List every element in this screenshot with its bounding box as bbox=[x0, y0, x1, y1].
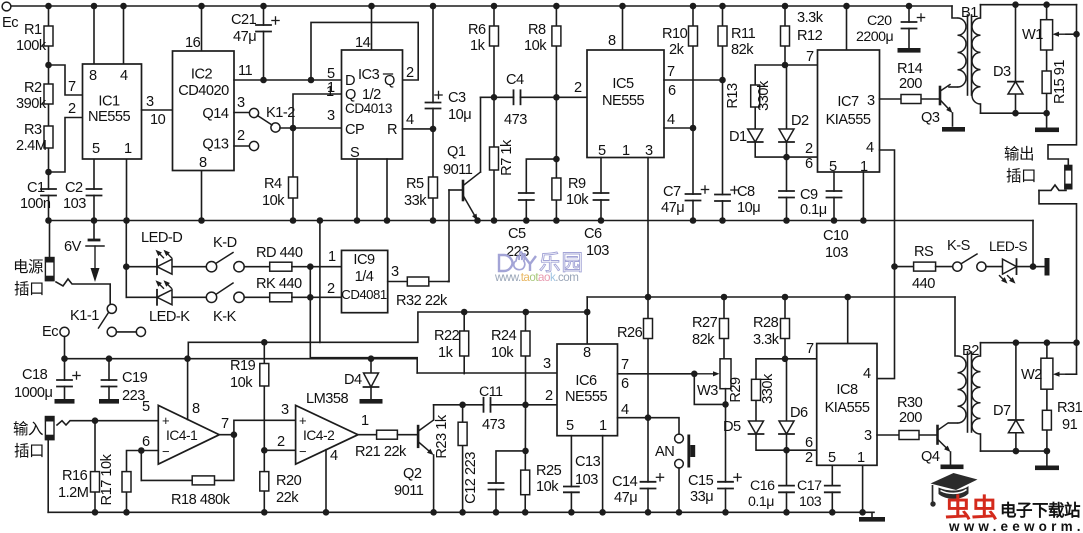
svg-text:R15 91: R15 91 bbox=[1052, 60, 1068, 104]
wire IC8 pin8 from supply bbox=[847, 297, 849, 344]
wire IC7 pin1 to mid rail bbox=[862, 172, 864, 221]
svg-text:91: 91 bbox=[1062, 417, 1078, 433]
svg-text:D2: D2 bbox=[791, 113, 809, 129]
svg-text:3: 3 bbox=[543, 356, 551, 372]
capacitor C20 from top rail to ground bbox=[908, 6, 910, 48]
svg-text:C14: C14 bbox=[612, 474, 638, 490]
svg-text:C12 223: C12 223 bbox=[463, 452, 479, 504]
svg-text:2: 2 bbox=[237, 128, 245, 144]
svg-text:C8: C8 bbox=[737, 184, 755, 200]
capacitor C21 bbox=[263, 6, 265, 80]
svg-text:C6: C6 bbox=[584, 226, 602, 242]
svg-text:K-S: K-S bbox=[947, 238, 971, 254]
svg-text:KIA555: KIA555 bbox=[825, 400, 870, 416]
LED LED-S bbox=[1002, 266, 1033, 268]
wire IC1 pin8 to top rail bbox=[93, 6, 95, 64]
output socket sleeve contact bbox=[1039, 185, 1066, 190]
svg-text:14: 14 bbox=[355, 35, 371, 51]
svg-text:R: R bbox=[387, 122, 397, 138]
svg-text:Q4: Q4 bbox=[921, 449, 940, 465]
wire lower supply line to B2 bbox=[586, 297, 588, 312]
capacitor C19 223 bbox=[108, 359, 110, 399]
svg-text:16: 16 bbox=[185, 35, 201, 51]
svg-text:K-K: K-K bbox=[213, 309, 237, 325]
wire R32 to Q1 base riser bbox=[448, 281, 449, 283]
wire supply jog to R22 R24 line bbox=[320, 312, 587, 342]
svg-text:3.3k: 3.3k bbox=[753, 332, 780, 348]
svg-text:5: 5 bbox=[142, 399, 150, 415]
svg-text:C11: C11 bbox=[479, 384, 503, 400]
watermark DIY leyuan bbox=[499, 255, 536, 271]
svg-text:C10: C10 bbox=[823, 228, 849, 244]
svg-text:4: 4 bbox=[667, 112, 675, 128]
battery 6V bbox=[93, 221, 95, 241]
svg-text:LED-K: LED-K bbox=[149, 309, 190, 325]
ground at Q3 emitter bbox=[942, 127, 965, 132]
wire IC8 pin1 to bottom rail bbox=[862, 465, 864, 512]
wire RS row from pin4 net bbox=[895, 266, 914, 268]
resistor R25 10k bbox=[524, 405, 526, 513]
resistor R11 from top rail bbox=[722, 6, 724, 80]
svg-text:R3: R3 bbox=[24, 122, 42, 138]
IC1 NE555 timer bbox=[83, 64, 142, 159]
output socket plug bbox=[1065, 165, 1072, 188]
svg-text:IC4-2: IC4-2 bbox=[303, 428, 334, 443]
svg-text:C1: C1 bbox=[27, 180, 45, 196]
wire bottom ground rail bbox=[48, 511, 874, 513]
svg-text:IC8: IC8 bbox=[836, 382, 858, 398]
svg-text:C19: C19 bbox=[122, 370, 148, 386]
wire IC7 pin8 to top rail bbox=[846, 6, 848, 50]
wire IC4-1 output pin7 bbox=[219, 434, 234, 436]
transistor Q3 bbox=[939, 87, 942, 104]
svg-text:473: 473 bbox=[504, 112, 527, 128]
op-amp IC4-1 bbox=[158, 405, 219, 464]
svg-text:82k: 82k bbox=[692, 332, 715, 348]
wire mid ground rail bbox=[50, 220, 1034, 222]
wire IC3 bottom right pin to mid rail bbox=[386, 159, 388, 221]
wire K-K to RK bbox=[244, 296, 270, 298]
input tip contact wire bbox=[57, 421, 158, 425]
svg-text:9011: 9011 bbox=[443, 162, 473, 178]
svg-text:K1-2: K1-2 bbox=[266, 105, 295, 121]
svg-text:2: 2 bbox=[327, 281, 335, 297]
svg-text:C18: C18 bbox=[22, 367, 48, 383]
transformer B1 core bbox=[967, 15, 969, 95]
svg-text:3: 3 bbox=[327, 108, 335, 124]
svg-text:1/4: 1/4 bbox=[355, 269, 374, 285]
resistor R28 3.3k bbox=[784, 297, 786, 359]
svg-text:3: 3 bbox=[237, 95, 245, 111]
svg-text:B1: B1 bbox=[961, 5, 978, 21]
wire IC3 Qbar feedback to D bbox=[311, 22, 418, 80]
svg-text:C15: C15 bbox=[688, 473, 714, 489]
wire IC6 pin1 to bottom rail bbox=[602, 436, 604, 513]
IC6 NE555 timer bbox=[557, 344, 618, 436]
wire IC4-2 pin4 to bottom rail bbox=[325, 450, 327, 513]
svg-text:4: 4 bbox=[863, 366, 871, 382]
wire IC5 pin3 down to lower supply bbox=[647, 158, 649, 298]
switch K-D bbox=[206, 262, 216, 272]
svg-text:−: − bbox=[162, 444, 169, 459]
svg-text:C5: C5 bbox=[508, 226, 526, 242]
svg-text:R18 480k: R18 480k bbox=[171, 492, 231, 508]
op-amp IC4-2 bbox=[296, 405, 358, 464]
svg-text:W1: W1 bbox=[1022, 27, 1043, 43]
svg-text:C17: C17 bbox=[797, 478, 822, 494]
svg-text:200: 200 bbox=[899, 76, 922, 92]
feedback R18 path bbox=[141, 435, 234, 481]
IC3 CD4013 flip-flop bbox=[342, 50, 403, 159]
svg-text:3: 3 bbox=[645, 143, 653, 159]
wire R1-R2-R3-C1 chain bbox=[48, 6, 50, 221]
svg-text:R25: R25 bbox=[536, 463, 562, 479]
wire C4 line to IC5 pin2 bbox=[481, 96, 588, 98]
wire Ec terminal down bbox=[64, 337, 66, 359]
svg-text:+: + bbox=[162, 413, 169, 428]
resistor R26 from supply bbox=[647, 297, 649, 418]
svg-text:103: 103 bbox=[586, 243, 609, 259]
svg-text:C21: C21 bbox=[231, 12, 257, 28]
wire IC8 pin3 to R30 bbox=[877, 434, 938, 436]
diode D5 bbox=[749, 421, 764, 434]
svg-text:IC1: IC1 bbox=[98, 94, 120, 110]
svg-text:−: − bbox=[299, 444, 306, 459]
svg-text:3: 3 bbox=[864, 428, 872, 444]
wire IC2 pin16 to top rail bbox=[201, 6, 203, 51]
capacitor C9 to mid rail bbox=[786, 142, 788, 221]
svg-text:2: 2 bbox=[406, 65, 414, 81]
svg-text:+: + bbox=[299, 413, 306, 428]
svg-text:AN: AN bbox=[655, 444, 674, 460]
resistor R19 10k bbox=[263, 342, 265, 450]
wire supply drop to IC6 pin8 bbox=[586, 312, 588, 344]
svg-text:R28: R28 bbox=[753, 315, 779, 331]
svg-text:Ec: Ec bbox=[2, 15, 18, 31]
diode D7 bbox=[1015, 343, 1017, 451]
svg-text:9011: 9011 bbox=[394, 483, 424, 499]
terminal bar after LED-S bbox=[1033, 266, 1045, 268]
diode D2 bbox=[785, 65, 787, 129]
capacitor C13 103 bbox=[563, 487, 580, 491]
svg-text:103: 103 bbox=[63, 196, 86, 212]
wire top +Ec rail bbox=[11, 5, 953, 7]
svg-text:R12: R12 bbox=[797, 28, 823, 44]
transformer B2 core bbox=[967, 352, 969, 432]
svg-text:2.4M: 2.4M bbox=[16, 138, 46, 154]
svg-text:390k: 390k bbox=[16, 96, 47, 112]
wire IC7 pin5 via C10 to mid rail bbox=[833, 172, 835, 221]
capacitor C10 bbox=[826, 192, 843, 197]
wire IC1 pin7 bbox=[49, 65, 83, 95]
svg-text:440: 440 bbox=[912, 276, 935, 292]
resistor R21 22k bbox=[377, 430, 398, 439]
wire IC9 pin3 via R32 to Q1 base bbox=[388, 281, 448, 283]
svg-text:R27: R27 bbox=[692, 315, 718, 331]
svg-text:2: 2 bbox=[805, 450, 813, 466]
svg-text:10k: 10k bbox=[524, 38, 547, 54]
wire IC3 pin1 Q to R4 bbox=[293, 94, 342, 128]
wire IC5 pin8 to top rail bbox=[622, 6, 624, 50]
wire IC5 pin4 to C7 bbox=[664, 127, 693, 129]
capacitor C15 33u bbox=[717, 483, 734, 488]
svg-text:电源: 电源 bbox=[13, 258, 43, 276]
svg-text:Q: Q bbox=[345, 87, 356, 103]
svg-text:7: 7 bbox=[806, 49, 814, 65]
svg-text:1k: 1k bbox=[438, 345, 454, 361]
svg-text:1: 1 bbox=[361, 413, 369, 429]
svg-text:S: S bbox=[350, 145, 360, 161]
transformer B2 secondary bbox=[972, 356, 981, 434]
svg-text:2200μ: 2200μ bbox=[856, 29, 894, 45]
resistor R14 200 bbox=[901, 95, 921, 104]
wire RS to K-S bbox=[936, 266, 953, 268]
resistor R5 to mid rail bbox=[432, 129, 434, 221]
svg-text:2: 2 bbox=[68, 101, 76, 117]
potentiometer W3 bbox=[720, 359, 731, 389]
svg-text:CD4081: CD4081 bbox=[341, 287, 387, 302]
svg-text:D6: D6 bbox=[790, 405, 808, 421]
svg-text:1: 1 bbox=[124, 141, 132, 157]
svg-text:R17 10k: R17 10k bbox=[99, 453, 115, 505]
wire RK to IC9 pin2 bbox=[292, 296, 342, 298]
svg-text:1: 1 bbox=[622, 143, 630, 159]
wire W1 wiper line bbox=[1066, 33, 1077, 35]
svg-text:IC9: IC9 bbox=[353, 252, 375, 268]
switch K1-1 bbox=[107, 304, 116, 313]
capacitor C1 bbox=[40, 190, 57, 195]
terminal Ec bbox=[2, 2, 11, 11]
svg-text:R11: R11 bbox=[731, 26, 756, 42]
capacitor C2 bbox=[86, 190, 103, 195]
svg-text:Q: Q bbox=[384, 73, 395, 89]
wire B1 secondary top line bbox=[981, 4, 1077, 6]
svg-text:6: 6 bbox=[805, 435, 813, 451]
wire IC4-2 pin2 bias bbox=[264, 449, 295, 451]
resistor R8 from top rail bbox=[555, 6, 557, 97]
resistor R9 to mid rail bbox=[555, 159, 557, 220]
transistor Q2 9011 bbox=[417, 426, 420, 447]
svg-text:5: 5 bbox=[598, 143, 606, 159]
power socket bbox=[49, 221, 51, 258]
svg-text:4: 4 bbox=[866, 140, 874, 156]
svg-text:8: 8 bbox=[583, 345, 591, 361]
capacitor C7 to mid rail bbox=[692, 128, 694, 221]
svg-text:11: 11 bbox=[238, 63, 253, 79]
svg-text:200: 200 bbox=[899, 410, 922, 426]
svg-text:4: 4 bbox=[406, 112, 414, 128]
svg-text:5: 5 bbox=[829, 159, 837, 175]
svg-text:C2: C2 bbox=[65, 180, 83, 196]
wire K-D to RD bbox=[244, 266, 270, 268]
resistor R31 91 bbox=[1042, 410, 1051, 430]
svg-text:插口: 插口 bbox=[14, 442, 44, 460]
svg-text:www.eeworm.com: www.eeworm.com bbox=[948, 519, 1083, 533]
svg-text:R1: R1 bbox=[24, 22, 42, 38]
resistor R32 22k bbox=[407, 277, 429, 286]
svg-text:电子下载站: 电子下载站 bbox=[1000, 500, 1081, 520]
svg-text:47μ: 47μ bbox=[233, 29, 256, 45]
wire IC8 pin5 via C17 bbox=[831, 465, 833, 512]
wire R8 node to C5/R9 bbox=[555, 97, 557, 159]
wire IC6 pin5 via C13 bbox=[570, 436, 572, 513]
wire IC4-1 pin6 bbox=[141, 450, 158, 452]
svg-text:C9: C9 bbox=[800, 187, 818, 203]
ground below C18 bbox=[55, 399, 75, 404]
switch K1-2 bbox=[249, 108, 258, 117]
wire IC5 pin7 to R11 bbox=[664, 79, 723, 81]
svg-text:2: 2 bbox=[574, 80, 582, 96]
wire IC3 S pin to mid rail bbox=[356, 159, 358, 221]
svg-text:R21 22k: R21 22k bbox=[355, 444, 407, 460]
svg-text:LM358: LM358 bbox=[306, 391, 349, 407]
svg-text:0.1μ: 0.1μ bbox=[748, 494, 774, 510]
svg-text:2: 2 bbox=[805, 141, 813, 157]
svg-text:5: 5 bbox=[566, 418, 574, 434]
svg-text:8: 8 bbox=[199, 155, 207, 171]
svg-text:7: 7 bbox=[68, 79, 76, 95]
wire supply riser to mid rail bbox=[319, 221, 321, 343]
wire IC8 pin7 line bbox=[756, 358, 817, 360]
ground at end of bottom rail bbox=[871, 512, 873, 517]
resistor R30 200 bbox=[899, 431, 919, 440]
resistor RS 440 bbox=[914, 262, 936, 271]
svg-text:R10: R10 bbox=[662, 26, 688, 42]
capacitor C18 1000u bbox=[64, 359, 66, 399]
svg-text:R14: R14 bbox=[897, 61, 923, 77]
svg-text:2: 2 bbox=[545, 388, 553, 404]
svg-text:NE555: NE555 bbox=[602, 93, 645, 109]
wire W2 wiper line bbox=[1066, 373, 1077, 375]
IC5 NE555 timer bbox=[587, 50, 664, 158]
svg-text:5: 5 bbox=[92, 141, 100, 157]
svg-text:8: 8 bbox=[192, 401, 200, 417]
wire IC4-1 pin8 to supply bbox=[187, 359, 189, 420]
svg-text:W3: W3 bbox=[697, 383, 718, 399]
svg-text:3: 3 bbox=[867, 93, 875, 109]
svg-text:R22: R22 bbox=[434, 328, 460, 344]
svg-text:Q3: Q3 bbox=[921, 110, 940, 126]
svg-text:6: 6 bbox=[142, 434, 150, 450]
svg-text:3.3k: 3.3k bbox=[797, 10, 824, 26]
svg-text:8: 8 bbox=[608, 33, 616, 49]
svg-text:103: 103 bbox=[799, 494, 822, 510]
resistor R22 1k bbox=[463, 312, 465, 374]
svg-text:473: 473 bbox=[482, 417, 505, 433]
wire IC1 pin1 to mid rail bbox=[126, 159, 128, 221]
svg-text:47μ: 47μ bbox=[614, 490, 637, 506]
ground below C19 bbox=[99, 399, 119, 404]
svg-text:6: 6 bbox=[668, 83, 676, 99]
svg-text:7: 7 bbox=[221, 416, 229, 432]
transistor Q1 9011 bbox=[449, 189, 463, 191]
wire IC6 pin4 line to AN bbox=[618, 418, 680, 434]
wire IC1 pin2 bbox=[49, 118, 83, 173]
wire IC7 pin3 to R14 bbox=[880, 98, 941, 100]
diode D3 bbox=[1015, 5, 1017, 114]
wire IC2 pin2 Q13 bbox=[234, 145, 250, 147]
svg-text:R13: R13 bbox=[725, 83, 741, 109]
svg-text:1k: 1k bbox=[470, 38, 486, 54]
svg-text:插口: 插口 bbox=[1006, 167, 1036, 185]
svg-text:C7: C7 bbox=[663, 184, 681, 200]
svg-text:82k: 82k bbox=[731, 42, 754, 58]
capacitor C11 473 bbox=[484, 397, 489, 413]
wire IC6 pin7 to W3 wiper bbox=[618, 373, 695, 375]
resistor R1 bbox=[44, 26, 53, 46]
svg-text:R2: R2 bbox=[24, 80, 42, 96]
wire Q2 collector C11 line bbox=[434, 404, 557, 406]
IC8 KIA555 bbox=[817, 344, 877, 466]
IC9 CD4081 AND gate bbox=[342, 250, 388, 312]
svg-text:2k: 2k bbox=[669, 42, 685, 58]
wire mid rail end down to LED-S bbox=[1032, 221, 1034, 267]
wire IC6 pin3 line bbox=[417, 372, 557, 374]
wire W1 wiper to output socket tip bbox=[1048, 5, 1077, 166]
transformer B2 primary bbox=[955, 297, 958, 356]
switch K-K bbox=[206, 292, 216, 302]
svg-text:4: 4 bbox=[621, 402, 629, 418]
wire IC7 pin4 to IC8 pin4 net bbox=[877, 150, 895, 379]
svg-text:7: 7 bbox=[806, 341, 814, 357]
resistor R20 22k bbox=[263, 450, 265, 512]
wire B2 secondary bottom line bbox=[981, 450, 1047, 452]
switch K-S bbox=[953, 262, 962, 271]
svg-text:IC4-1: IC4-1 bbox=[166, 428, 197, 443]
wire IC5 pin5 via C6 to mid rail bbox=[600, 158, 602, 221]
svg-text:www.taotaok.com: www.taotaok.com bbox=[494, 271, 578, 284]
svg-text:3: 3 bbox=[146, 94, 154, 110]
capacitor C6 bbox=[593, 194, 610, 199]
svg-text:R31: R31 bbox=[1057, 400, 1083, 416]
wire IC4-1 out to IC4-2 pin3 bbox=[234, 420, 296, 434]
wire +6V supply line bbox=[65, 358, 311, 360]
svg-text:10k: 10k bbox=[536, 479, 559, 495]
resistor R7 to C5 bbox=[493, 97, 495, 220]
resistor R6 from top rail bbox=[493, 6, 495, 97]
svg-text:R9: R9 bbox=[568, 176, 586, 192]
svg-text:103: 103 bbox=[825, 245, 848, 261]
resistor R18 480k bbox=[192, 476, 214, 485]
svg-text:10: 10 bbox=[150, 112, 166, 128]
svg-text:R16: R16 bbox=[62, 468, 88, 484]
potentiometer W2 bbox=[1046, 343, 1048, 451]
capacitor C12 223 bbox=[496, 451, 525, 512]
svg-text:33μ: 33μ bbox=[690, 489, 713, 505]
svg-text:4: 4 bbox=[120, 68, 128, 84]
svg-text:10μ: 10μ bbox=[737, 200, 760, 216]
svg-text:1.2M: 1.2M bbox=[58, 485, 88, 501]
svg-text:D4: D4 bbox=[344, 372, 362, 388]
svg-text:RD 440: RD 440 bbox=[256, 245, 303, 261]
svg-text:CD4020: CD4020 bbox=[178, 83, 229, 99]
resistor R12 3.3k from top rail bbox=[784, 6, 786, 65]
LED LED-K bbox=[126, 296, 207, 298]
transformer B1 secondary bbox=[972, 18, 981, 104]
svg-text:KIA555: KIA555 bbox=[826, 112, 871, 128]
svg-text:LED-D: LED-D bbox=[141, 230, 182, 246]
watermark eeworm logo bbox=[930, 473, 977, 507]
svg-text:22k: 22k bbox=[276, 490, 299, 506]
battery arrow to K1-1 bbox=[94, 246, 96, 268]
transformer B1 primary bbox=[952, 6, 958, 18]
svg-text:CD4013: CD4013 bbox=[345, 101, 392, 116]
IC2 CD4020 counter bbox=[173, 51, 235, 171]
svg-text:10μ: 10μ bbox=[448, 107, 471, 123]
svg-text:3: 3 bbox=[281, 402, 289, 418]
potentiometer W1 bbox=[1046, 5, 1048, 114]
wire IC1 pin3 to IC2 bbox=[142, 109, 173, 111]
